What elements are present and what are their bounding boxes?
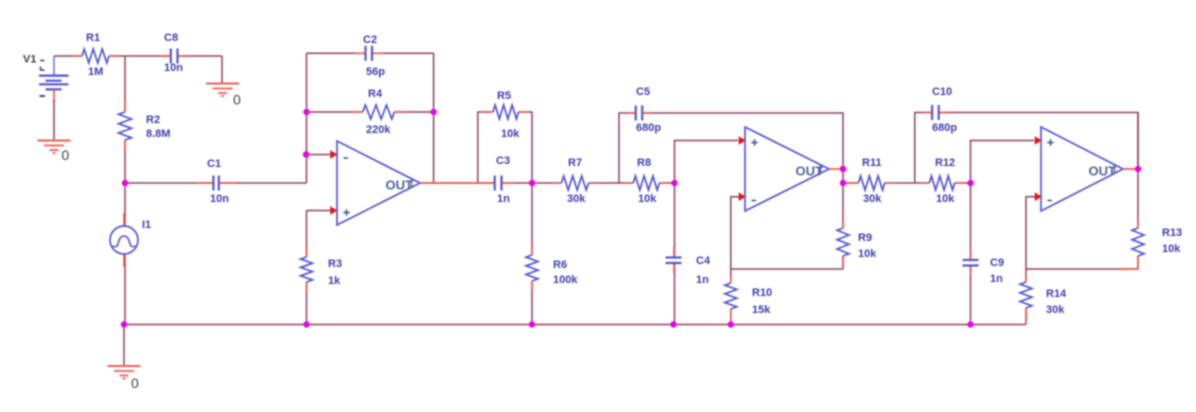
capacitor C3 [487, 155, 515, 205]
resistor R7 [551, 157, 599, 205]
wire U1 output run [420, 182, 532, 184]
svg-text:R4: R4 [368, 88, 383, 100]
svg-text:30k: 30k [1046, 304, 1065, 316]
resistor R11 [846, 157, 895, 205]
wire R7 R8 run [532, 182, 675, 184]
svg-text:C8: C8 [164, 32, 178, 44]
svg-text:C5: C5 [636, 86, 650, 98]
svg-text:C10: C10 [932, 86, 952, 98]
svg-text:680p: 680p [932, 122, 957, 134]
junction R12/C9/U3+ node [967, 180, 973, 186]
svg-text:0: 0 [233, 92, 241, 108]
wire bottom left drop to ground [123, 325, 125, 367]
junction R4 left [303, 109, 309, 115]
wire U2 inverting input path [731, 197, 739, 325]
wire R13 bottom link [1026, 268, 1138, 270]
resistor R4 [352, 88, 405, 136]
resistor R1 [72, 32, 119, 78]
capacitor C1 [196, 158, 235, 205]
capacitor C2 [355, 34, 385, 78]
U3 inverting input arrow [1035, 192, 1042, 201]
current source I1 [110, 213, 151, 267]
svg-text:I1: I1 [142, 219, 151, 231]
svg-text:680p: 680p [636, 122, 661, 134]
svg-text:OUT: OUT [386, 178, 414, 193]
svg-text:R3: R3 [328, 258, 342, 270]
svg-text:10n: 10n [164, 62, 183, 74]
wire main vertical R2 branch [124, 56, 126, 183]
junction U2 output [840, 166, 846, 172]
resistor R2 [119, 101, 171, 151]
svg-text:C9: C9 [990, 257, 1004, 269]
junction U2 output / R11 [840, 180, 846, 186]
svg-text:R10: R10 [752, 287, 772, 299]
svg-text:R11: R11 [862, 157, 882, 169]
svg-text:R9: R9 [858, 232, 872, 244]
junction C1/R2/I1 node [122, 180, 128, 186]
wire U2 non-inverting input path [675, 141, 739, 184]
wire C1 input run [125, 182, 307, 184]
svg-text:R8: R8 [637, 157, 651, 169]
wire U2 output vertical [842, 169, 844, 269]
wire U1 feedback left vertical [306, 53, 308, 183]
junction U3 output [1135, 166, 1141, 172]
wire V1 to ground [53, 100, 55, 141]
svg-text:R7: R7 [568, 157, 582, 169]
svg-text:1k: 1k [328, 275, 341, 287]
svg-text:V1: V1 [23, 54, 36, 66]
svg-text:R6: R6 [553, 259, 567, 271]
svg-text:1M: 1M [88, 66, 103, 78]
svg-text:10k: 10k [1162, 243, 1181, 255]
wire U3 inverting input path [1026, 197, 1035, 269]
wire U1 feedback right vertical [433, 53, 435, 183]
U2 inverting input arrow [739, 192, 746, 201]
U2 non-inverting input arrow [739, 136, 746, 145]
svg-text:15k: 15k [752, 304, 771, 316]
wire U1 inverting input stub [307, 154, 331, 156]
resistor R9 [837, 220, 877, 264]
wire C10 feedback loop [915, 113, 1138, 184]
junction I1 at bus [121, 321, 127, 327]
resistor R13 [1120, 220, 1182, 269]
wire R9 bottom link [731, 268, 843, 270]
svg-text:10k: 10k [858, 248, 877, 260]
svg-text:C2: C2 [363, 34, 377, 46]
resistor R10 [725, 276, 772, 325]
junction R6 at bus [529, 321, 535, 327]
junction U1 inverting input [303, 151, 309, 157]
svg-text:10k: 10k [638, 193, 657, 205]
svg-text:1n: 1n [990, 273, 1003, 285]
wire R6 branch vertical [531, 183, 533, 325]
U3 output pin [1123, 168, 1138, 170]
svg-text:30k: 30k [863, 193, 882, 205]
resistor R12 [919, 157, 965, 205]
U3 non-inverting input arrow [1035, 136, 1042, 145]
wire R5 parallel branch [478, 112, 532, 183]
svg-text:C4: C4 [696, 255, 711, 267]
wire R4 feedback run [307, 111, 434, 113]
svg-text:1n: 1n [696, 274, 709, 286]
resistor R14 [1020, 275, 1067, 325]
wire C9 branch vertical [970, 183, 972, 325]
op-amp U1 [337, 141, 420, 225]
svg-text:10k: 10k [501, 128, 520, 140]
svg-text:R5: R5 [497, 90, 511, 102]
wire top rail V1 to C8/ground corner [54, 55, 222, 57]
resistor R3 [301, 246, 343, 293]
U2 output pin [829, 168, 843, 170]
junction C9 at bus [967, 321, 973, 327]
svg-text:0: 0 [62, 147, 70, 163]
ground 0 under C8 [206, 84, 241, 108]
resistor R5 [483, 90, 529, 140]
wire R14 branch vertical [1025, 269, 1027, 325]
svg-text:30k: 30k [567, 193, 586, 205]
ground 0 bottom center [108, 366, 141, 391]
junction C3/R5/R6 node [529, 180, 535, 186]
capacitor C5 [627, 86, 661, 134]
junction R8/C4/U2+ node [671, 180, 677, 186]
U1 non-inverting input arrow [330, 206, 337, 215]
wire U3 output vertical [1137, 113, 1139, 270]
wire C4 branch vertical [674, 183, 676, 325]
svg-text:C3: C3 [496, 155, 510, 167]
svg-text:10n: 10n [210, 193, 229, 205]
svg-text:C1: C1 [207, 158, 221, 170]
junction R10 at bus [728, 321, 734, 327]
voltage source V1 [23, 54, 69, 104]
wire C5 feedback loop [619, 113, 843, 183]
capacitor C9 [963, 249, 1005, 285]
ground 0 under V1 [38, 141, 71, 164]
svg-text:0: 0 [131, 375, 139, 391]
junction R4 right [430, 109, 436, 115]
svg-text:R12: R12 [935, 157, 955, 169]
capacitor C8 [160, 32, 188, 74]
svg-text:56p: 56p [366, 66, 385, 78]
wire C2 feedback top [307, 52, 434, 54]
resistor R6 [526, 244, 578, 292]
svg-text:10k: 10k [936, 193, 955, 205]
wire R11 R12 run [843, 182, 971, 184]
svg-text:OUT: OUT [796, 163, 824, 178]
capacitor C4 [666, 247, 711, 286]
wire U3 non-inverting input path [971, 141, 1035, 184]
wire C8 right drop to ground [221, 56, 223, 84]
svg-text:220k: 220k [366, 124, 391, 136]
U1 output pin [420, 182, 495, 184]
wire I1 branch vertical [124, 183, 126, 325]
capacitor C10 [923, 86, 957, 134]
svg-text:8.8M: 8.8M [146, 128, 170, 140]
svg-text:R14: R14 [1046, 288, 1067, 300]
svg-text:R1: R1 [86, 32, 100, 44]
wire bottom bus [124, 324, 1026, 326]
svg-text:1n: 1n [497, 193, 510, 205]
junction R3 at bus [303, 321, 309, 327]
wire R3 branch vertical [306, 211, 308, 325]
op-amp U3 [1041, 127, 1123, 211]
svg-text:R13: R13 [1162, 227, 1182, 239]
junction C4 at bus [670, 321, 676, 327]
U1 inverting input arrow [330, 150, 337, 159]
svg-text:100k: 100k [553, 274, 578, 286]
resistor R8 [623, 157, 669, 205]
op-amp U2 [745, 127, 829, 211]
svg-text:R2: R2 [146, 114, 160, 126]
wire U1 non-inverting input stub [307, 210, 331, 212]
svg-text:OUT: OUT [1089, 163, 1117, 178]
